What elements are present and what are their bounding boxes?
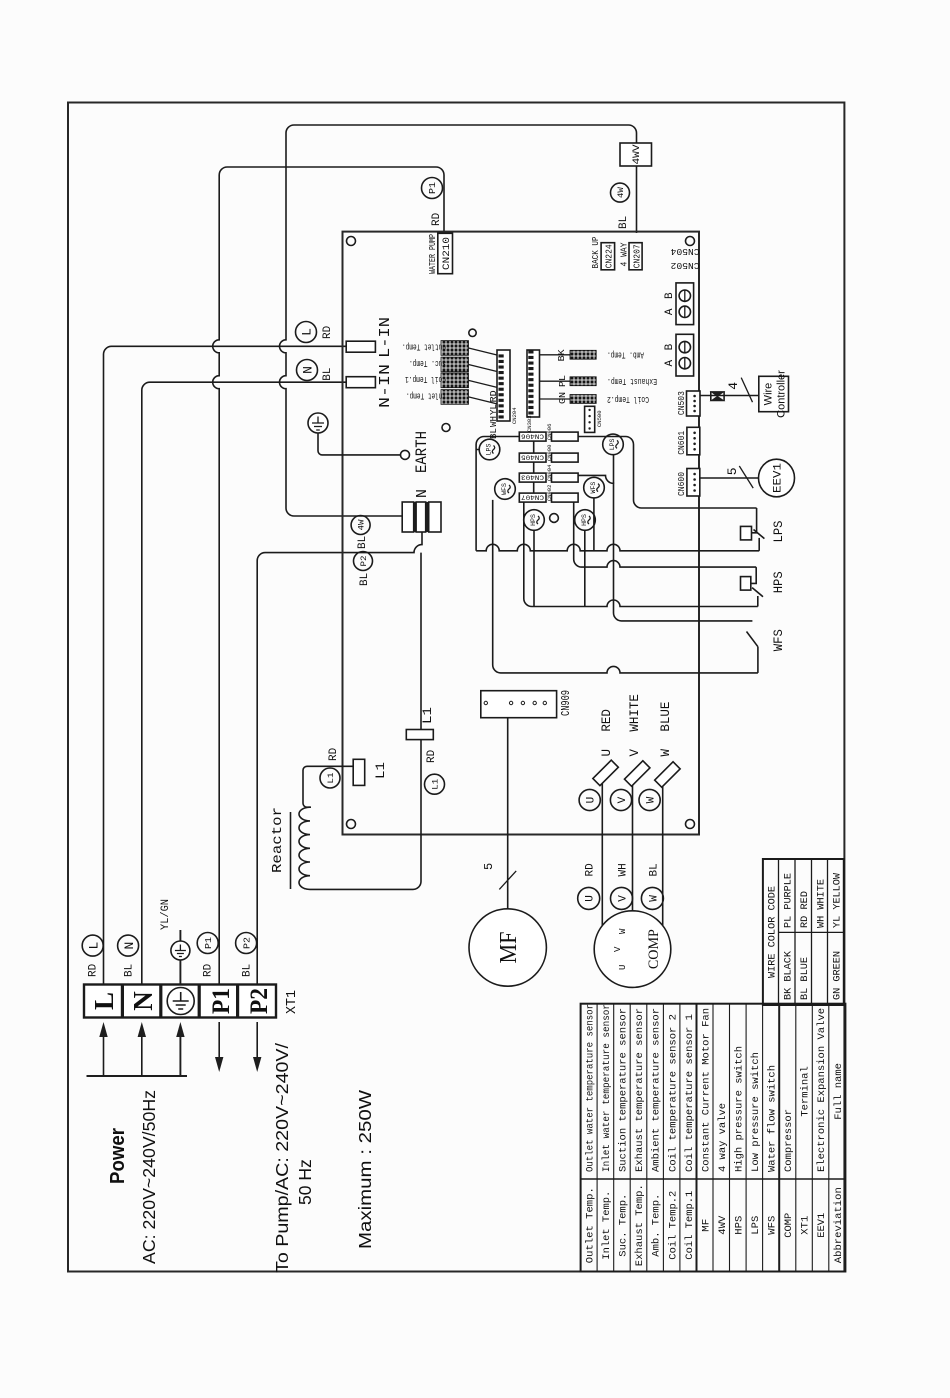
svg-text:CN405: CN405 [521, 453, 544, 460]
svg-text:XT1: XT1 [800, 1216, 812, 1235]
svg-text:XT1: XT1 [284, 990, 300, 1014]
svg-text:L1: L1 [326, 773, 336, 784]
label circled L + RD [82, 935, 103, 956]
svg-text:W: W [659, 749, 673, 757]
svg-text:RD RED: RD RED [799, 891, 811, 928]
svg-text:5: 5 [482, 863, 496, 870]
wires between relay connectors [533, 441, 535, 493]
svg-text:BK: BK [556, 349, 567, 361]
compressor COMP [594, 911, 671, 988]
4-way valve 4WV [620, 143, 652, 166]
svg-text:U: U [586, 797, 598, 804]
svg-text:Coil temperature sensor 1: Coil temperature sensor 1 [684, 1014, 696, 1172]
label circled N + BL (fuse) [297, 360, 318, 381]
svg-text:WFS: WFS [590, 482, 597, 494]
switch LPS [741, 508, 765, 551]
wire P2 from XT1 to N bus [257, 532, 422, 985]
motor fan MF [469, 909, 546, 986]
svg-text:BL BLUE: BL BLUE [799, 957, 811, 1000]
wire earth from XT1 [179, 930, 181, 985]
relay connector CN407 [519, 485, 578, 503]
wire color code table [763, 859, 844, 1005]
label circled N + BL [118, 935, 139, 956]
svg-text:BL: BL [648, 863, 660, 876]
svg-text:CN403: CN403 [521, 473, 544, 480]
svg-text:L1: L1 [431, 779, 441, 790]
svg-text:4WV: 4WV [632, 145, 643, 165]
arrow out of terminal (to pump) [218, 1022, 220, 1059]
svg-text:B: B [664, 292, 676, 299]
svg-text:Exhaust Temp.: Exhaust Temp. [634, 1184, 646, 1266]
svg-text:Constant Current Motor Fan: Constant Current Motor Fan [700, 1008, 712, 1172]
svg-text:CN600: CN600 [676, 472, 687, 496]
svg-text:High pressure switch: High pressure switch [734, 1046, 746, 1172]
svg-text:N: N [122, 942, 137, 950]
wire N from XT1 to fuse N-IN [142, 382, 346, 984]
wire CN909 to MF with 5-core slash [507, 718, 509, 909]
svg-text:LPS: LPS [486, 444, 493, 456]
svg-text:V: V [618, 895, 630, 902]
wire reactor top to L1 coil [303, 766, 353, 807]
svg-text:Compressor: Compressor [783, 1109, 795, 1172]
terminal block XT1 [84, 985, 276, 1018]
wire 4WV return to N bus [280, 125, 637, 516]
wire reactor bottom to L1 (left) [310, 740, 421, 890]
svg-text:RED: RED [600, 709, 614, 732]
svg-text:CN904: CN904 [546, 464, 553, 481]
svg-text:U: U [585, 895, 597, 902]
svg-text:Reactor: Reactor [270, 807, 286, 873]
thermistor Exhaust Temp. [540, 376, 658, 386]
svg-text:BACK UP: BACK UP [591, 237, 601, 269]
svg-text:CN500: CN500 [596, 410, 603, 427]
label circled P1 + RD (near CN210) [422, 178, 443, 199]
wire CN503 to wire controller [700, 395, 759, 397]
svg-text:N: N [414, 489, 431, 498]
thermistor Amb. Temp. [540, 350, 645, 360]
wire earth to PCB EARTH pin [318, 433, 402, 455]
switch WFS [747, 632, 758, 673]
svg-text:Suc. Temp.: Suc. Temp. [409, 358, 446, 368]
svg-text:HPS: HPS [771, 571, 786, 593]
svg-text:Terminal: Terminal [800, 1066, 812, 1116]
svg-text:CN210: CN210 [442, 237, 453, 270]
label circled L1 + RD (coil top) [320, 768, 340, 788]
svg-text:U: U [600, 749, 614, 757]
relay WFS coil 1 [495, 479, 516, 500]
wire CN600 to EEV1 [700, 477, 758, 479]
svg-text:Full name: Full name [833, 1063, 845, 1120]
svg-text:WFS: WFS [767, 1216, 779, 1235]
connector block A/B [664, 283, 694, 325]
terminal circled U (lower) [578, 887, 600, 909]
wire L1 to N bus [420, 553, 422, 730]
svg-text:L: L [89, 992, 119, 1010]
svg-text:RD: RD [585, 863, 597, 877]
svg-text:L-IN: L-IN [377, 317, 394, 358]
svg-text:CN503: CN503 [676, 391, 687, 415]
svg-text:N: N [128, 991, 158, 1011]
chassis earth symbol [308, 413, 328, 433]
fuse link W [655, 762, 680, 787]
svg-text:Controller: Controller [776, 370, 788, 418]
svg-text:RD: RD [203, 963, 215, 977]
svg-text:MF: MF [700, 1219, 712, 1232]
svg-text:4W: 4W [357, 519, 367, 531]
svg-text:P2: P2 [242, 937, 252, 949]
svg-text:L1: L1 [373, 762, 388, 779]
svg-text:L1: L1 [420, 707, 435, 724]
svg-text:P1: P1 [204, 937, 214, 949]
svg-text:LPS: LPS [771, 520, 786, 542]
svg-text:BL: BL [359, 573, 371, 586]
wire LPS coil top feed [476, 437, 519, 551]
svg-text:4 way valve: 4 way valve [717, 1103, 729, 1172]
relay LPS coil 2 [603, 434, 624, 455]
svg-text:GN GREEN: GN GREEN [832, 951, 844, 1000]
svg-text:Suction temperature sensor: Suction temperature sensor [618, 1008, 630, 1172]
svg-text:WHITE: WHITE [628, 694, 642, 732]
label circled P2 + BL (near N bus) [354, 552, 373, 571]
svg-text:CN303: CN303 [526, 415, 533, 432]
relay WFS coil 2 [584, 477, 605, 498]
svg-text:Power: Power [107, 1128, 129, 1184]
svg-text:CN909: CN909 [559, 690, 573, 716]
svg-text:Inlet water temperature sensor: Inlet water temperature sensor [601, 1004, 613, 1172]
relay HPS coil 1 [524, 510, 545, 531]
label circled L + RD (fuse) [296, 322, 317, 343]
terminal circled V (PCB) [610, 789, 631, 810]
wire WFS branch [493, 500, 758, 673]
thermistor Suc. Temp. [409, 357, 497, 372]
svg-text:Abbreviation: Abbreviation [833, 1187, 845, 1263]
power feed bus line [87, 1075, 188, 1077]
arrow out of terminal (to pump) [256, 1022, 258, 1059]
svg-text:5: 5 [725, 467, 740, 475]
EARTH pin [401, 450, 410, 459]
svg-text:BK BLACK: BK BLACK [783, 950, 795, 1000]
svg-text:W: W [648, 895, 660, 902]
svg-text:LPS: LPS [750, 1216, 762, 1235]
wire CN406 to LPS switch [578, 437, 757, 509]
svg-text:CN504: CN504 [670, 246, 699, 257]
arrow into terminal [141, 1035, 143, 1076]
svg-text:Coil temperature sensor 2: Coil temperature sensor 2 [667, 1014, 679, 1172]
terminal circled W (lower) [641, 887, 663, 909]
wire P1 from XT1 to CN210 [213, 167, 444, 985]
svg-text:N: N [301, 366, 316, 374]
svg-text:CN207: CN207 [631, 244, 642, 268]
label circled 4W + BL (near CN207) [611, 183, 630, 202]
svg-text:Exhaust Temp.: Exhaust Temp. [607, 376, 657, 386]
svg-text:BL: BL [357, 536, 369, 549]
svg-text:Coil Temp.2: Coil Temp.2 [667, 1191, 679, 1260]
svg-text:CN902: CN902 [546, 485, 553, 502]
svg-text:Inlet Temp.: Inlet Temp. [601, 1191, 613, 1260]
svg-text:CN406: CN406 [521, 432, 544, 439]
svg-text:B: B [664, 343, 676, 350]
terminal N bus block [402, 502, 441, 532]
svg-text:YL YELLOW: YL YELLOW [832, 872, 844, 928]
relay HPS coil 2 [575, 510, 596, 531]
svg-text:Amb. Temp.: Amb. Temp. [651, 1194, 663, 1257]
svg-text:V: V [617, 796, 629, 803]
svg-text:CN601: CN601 [676, 431, 687, 455]
svg-text:U: U [618, 965, 628, 970]
connector block A/B [664, 334, 694, 376]
svg-text:BL: BL [618, 216, 630, 229]
svg-text:LPS: LPS [609, 438, 616, 450]
wire LPS2/CN403 branch [578, 475, 752, 621]
svg-text:P1: P1 [208, 988, 235, 1014]
svg-text:HPS: HPS [734, 1216, 746, 1235]
border frame [68, 103, 844, 1272]
svg-text:EEV1: EEV1 [816, 1213, 828, 1238]
terminal circled V (lower) [611, 887, 633, 909]
svg-text:EEV1: EEV1 [773, 463, 785, 493]
svg-text:COMP: COMP [646, 929, 662, 969]
svg-text:Water flow switch: Water flow switch [767, 1065, 779, 1172]
svg-text:RD: RD [322, 325, 334, 339]
svg-text:AC: 220V~240V/50Hz: AC: 220V~240V/50Hz [139, 1090, 159, 1264]
fuse link U [593, 760, 618, 785]
svg-text:A: A [664, 308, 676, 315]
inductor L1 (board) [353, 759, 365, 785]
svg-text:WFS: WFS [501, 483, 508, 495]
svg-text:WFS: WFS [771, 629, 786, 651]
svg-text:CN502: CN502 [670, 260, 699, 271]
svg-text:Inlet Temp.: Inlet Temp. [406, 390, 446, 400]
svg-text:Outlet Temp.: Outlet Temp. [585, 1187, 597, 1263]
svg-text:BL: BL [124, 964, 136, 977]
reactor coil [299, 807, 310, 889]
svg-text:CN906: CN906 [546, 424, 553, 441]
wire HPS coil 1 stub [533, 530, 535, 606]
svg-text:Coil Temp.2: Coil Temp.2 [607, 394, 649, 404]
svg-text:Low pressure switch: Low pressure switch [750, 1052, 762, 1172]
label circled 4W + BL (near N bus) [351, 516, 370, 535]
svg-text:BL: BL [488, 428, 499, 439]
wire 4WV to CN207 [636, 166, 638, 233]
terminal circled U (PCB) [579, 789, 600, 810]
svg-text:P2: P2 [246, 988, 273, 1014]
abbreviation table [581, 1004, 846, 1272]
wire HPS branch (CN407) [524, 502, 758, 606]
fuse link V [624, 761, 649, 786]
connector CN500 [585, 406, 603, 432]
5-core slash [739, 466, 753, 488]
relay connector CN403 [519, 464, 578, 482]
switch HPS [741, 567, 764, 606]
svg-text:Outlet water temperature senso: Outlet water temperature sensor [585, 1004, 597, 1172]
wire COMP phase V [632, 777, 634, 911]
thermistor Coil Temp.1 [405, 373, 497, 388]
svg-text:Amb. Temp.: Amb. Temp. [607, 350, 644, 360]
relay LPS coil 1 [479, 439, 500, 460]
reactor core line [290, 812, 292, 889]
label circled L1 + RD (second) [425, 774, 445, 794]
svg-text:MF: MF [496, 932, 522, 964]
svg-text:L: L [300, 328, 315, 336]
svg-text:4W: 4W [616, 186, 626, 198]
main PCB board outline [343, 232, 700, 835]
svg-text:Coil Temp.1: Coil Temp.1 [405, 374, 446, 384]
fuse L-IN [346, 341, 375, 352]
inductor L1 (second) [406, 730, 433, 740]
earth circle YL/GN [171, 941, 190, 960]
svg-text:PL: PL [557, 375, 568, 387]
wire HPS coil 2 stub [584, 530, 586, 606]
svg-text:Suc. Temp.: Suc. Temp. [618, 1194, 630, 1257]
svg-text:RD: RD [88, 963, 100, 977]
svg-text:CN204: CN204 [511, 407, 518, 424]
svg-text:HPS: HPS [530, 514, 537, 526]
wire HPS right branch [574, 502, 757, 567]
svg-text:4 WAY: 4 WAY [620, 242, 630, 267]
svg-text:BL: BL [322, 367, 334, 380]
svg-text:RD: RD [328, 747, 340, 761]
connector pair symbol (bowtie) [711, 392, 724, 401]
arrow into terminal [103, 1035, 105, 1076]
svg-text:BLUE: BLUE [659, 702, 673, 732]
wire COMP phase U [601, 777, 603, 926]
svg-text:WATER PUMP: WATER PUMP [428, 234, 438, 274]
svg-text:HPS: HPS [581, 514, 588, 526]
relay connector CN406 [519, 424, 578, 442]
svg-text:Exhaust temperature sensor: Exhaust temperature sensor [634, 1008, 646, 1172]
wire COMP phase W [662, 777, 664, 926]
wire WFS coil 2 stub [593, 498, 595, 551]
svg-text:RD: RD [426, 749, 438, 763]
svg-text:50 Hz: 50 Hz [295, 1159, 315, 1205]
svg-text:CN407: CN407 [521, 493, 544, 500]
thermistor Inlet Temp. [406, 390, 497, 405]
label circled P1 + RD (left) [197, 933, 218, 954]
svg-text:P2: P2 [359, 556, 369, 567]
svg-text:YL/GN: YL/GN [160, 899, 172, 930]
relay connector CN405 [519, 445, 578, 463]
electronic expansion valve EEV1 [759, 459, 795, 497]
thermistor Outlet Temp. [402, 341, 497, 356]
terminal circled W (PCB) [639, 789, 660, 810]
svg-text:V: V [628, 749, 642, 757]
svg-text:COMP: COMP [783, 1213, 795, 1238]
svg-text:N-IN: N-IN [377, 364, 394, 408]
svg-text:Electronic Expansion Valve: Electronic Expansion Valve [816, 1008, 828, 1172]
connector strip CN3 (sensors group2) [526, 350, 540, 432]
svg-text:Coil Temp.1: Coil Temp.1 [684, 1191, 696, 1260]
svg-text:W: W [646, 796, 658, 803]
label circled P2 + BL (left) [236, 933, 257, 954]
arrow into terminal [179, 1035, 181, 1076]
svg-text:WH WHITE: WH WHITE [816, 879, 828, 928]
Wire Controller [759, 370, 789, 418]
wire L from XT1 to fuse L-IN [104, 346, 347, 984]
svg-text:To Pump/AC: 220V~240V/: To Pump/AC: 220V~240V/ [272, 1043, 292, 1273]
svg-text:P1: P1 [428, 182, 438, 194]
svg-text:CN224: CN224 [604, 244, 615, 268]
svg-text:L: L [86, 942, 101, 950]
svg-text:GN: GN [557, 392, 568, 404]
svg-text:WIRE COLOR CODE: WIRE COLOR CODE [767, 886, 779, 978]
connector strip CN2 (sensors group1) [497, 350, 518, 424]
svg-text:PL PURPLE: PL PURPLE [783, 873, 795, 928]
wire line A to LPS switch (with jumps) [476, 544, 759, 551]
svg-text:A: A [664, 360, 676, 367]
svg-text:CN900: CN900 [546, 445, 553, 462]
svg-text:Wire: Wire [763, 383, 775, 406]
svg-text:Ambient temperature sensor: Ambient temperature sensor [651, 1008, 663, 1172]
svg-text:V: V [613, 946, 623, 952]
small via holes [469, 329, 476, 336]
svg-text:BL: BL [242, 964, 254, 977]
svg-text:4: 4 [726, 382, 741, 390]
svg-text:Outlet Temp.: Outlet Temp. [402, 342, 446, 352]
svg-text:W: W [618, 928, 628, 934]
svg-text:EARTH: EARTH [413, 431, 431, 473]
PCB corner screw holes [347, 820, 356, 829]
connector CN909 [481, 691, 557, 718]
fuse N-IN [346, 377, 375, 388]
svg-text:Maximum : 250W: Maximum : 250W [355, 1089, 375, 1249]
svg-text:4WV: 4WV [717, 1215, 729, 1235]
4-core slash [741, 378, 752, 403]
thermistor Coil Temp.2 [540, 394, 650, 404]
svg-text:WH: WH [618, 863, 630, 876]
svg-text:RD: RD [431, 212, 443, 226]
